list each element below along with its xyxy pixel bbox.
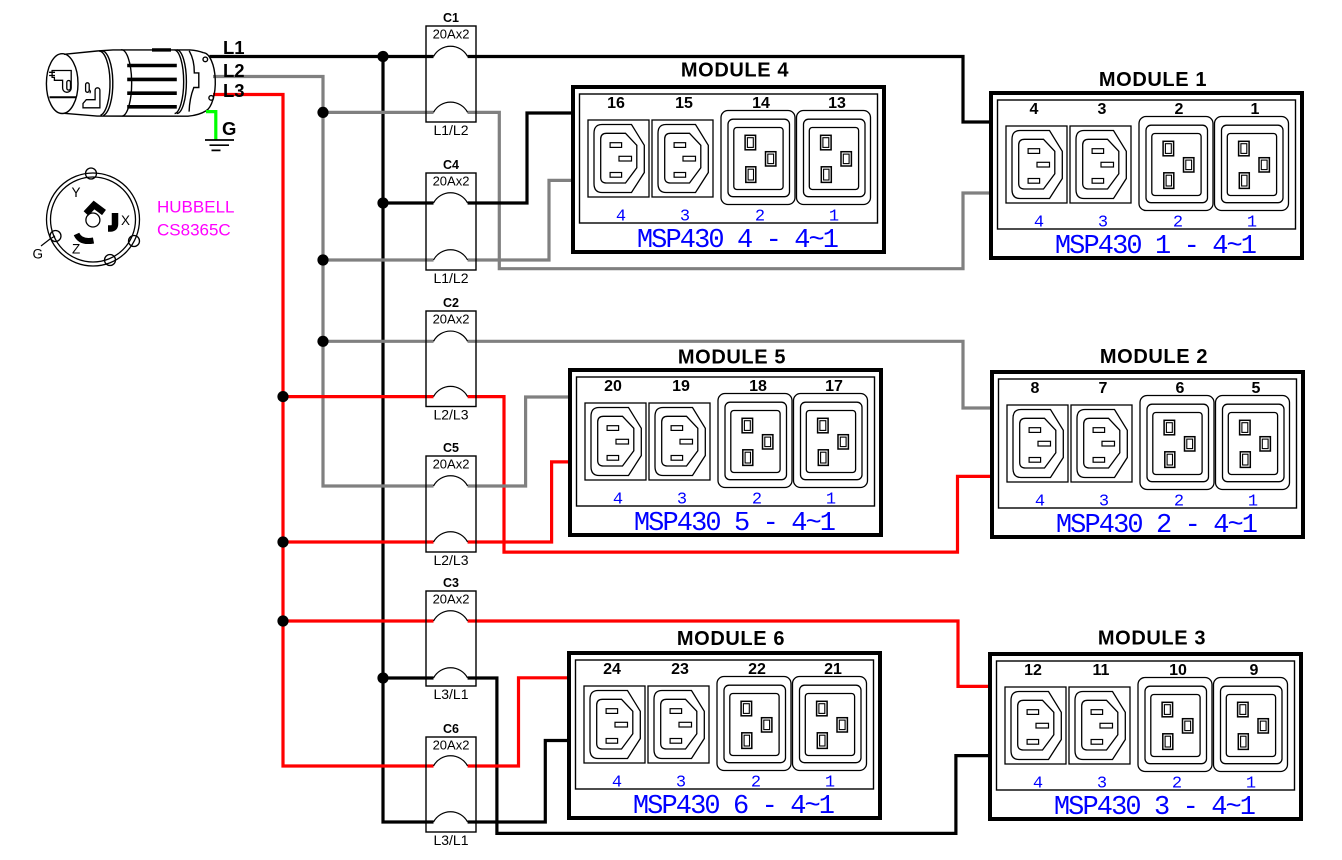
outlet 9 (NEMA 5-20R) <box>1214 678 1288 772</box>
svg-text:1: 1 <box>1247 213 1257 232</box>
svg-text:L2/L3: L2/L3 <box>433 552 468 568</box>
circuit breaker C6 (L3/L1, 20Ax2) <box>426 722 476 848</box>
module 1 port numbers and MSP430 label <box>1034 213 1257 262</box>
svg-text:2: 2 <box>1175 101 1184 118</box>
svg-text:C3: C3 <box>443 576 459 590</box>
wire feed L1 bus to C3 bottom <box>383 676 434 679</box>
plug face blade slots <box>49 71 100 108</box>
module 4 outlet bank <box>573 60 884 253</box>
svg-text:MSP430 6 - 4~1: MSP430 6 - 4~1 <box>633 792 834 822</box>
svg-text:20Ax2: 20Ax2 <box>433 174 470 189</box>
outlet 6 (NEMA 5-20R) <box>1140 396 1214 490</box>
wire L1 phase from plug to breaker C1 (black) <box>210 55 434 58</box>
svg-text:1: 1 <box>825 773 835 792</box>
svg-text:L3: L3 <box>223 80 245 101</box>
ground symbol <box>205 140 234 150</box>
svg-text:MODULE 6: MODULE 6 <box>677 628 785 650</box>
outlet 7 (IEC C13) <box>1071 405 1132 482</box>
svg-text:C1: C1 <box>443 11 459 25</box>
pin blade Z <box>77 234 94 241</box>
svg-text:Y: Y <box>72 185 81 200</box>
wire C4 bottom output to Module 4 lower (gray) <box>468 180 571 260</box>
wire C1 top output to Module 1 upper (black) <box>468 57 989 123</box>
svg-text:1: 1 <box>1248 492 1258 511</box>
svg-text:4: 4 <box>1035 492 1045 511</box>
outlet 17 (NEMA 5-20R) <box>794 394 868 488</box>
outlet 11 (IEC C13) <box>1069 687 1130 764</box>
svg-text:MODULE 3: MODULE 3 <box>1098 628 1206 650</box>
wire feed L3 bus to C3 top <box>283 619 434 622</box>
outlet 22 (NEMA 5-20R) <box>717 677 791 771</box>
svg-text:10: 10 <box>1169 662 1187 679</box>
svg-text:3: 3 <box>1098 213 1108 232</box>
wire C5 bottom output to Module 5 lower (red) <box>468 462 568 542</box>
svg-text:23: 23 <box>671 661 689 678</box>
outlet 19 (IEC C13) <box>649 403 710 480</box>
wire feed L3 bus to C5 bottom <box>283 540 434 543</box>
outlet 24 (IEC C13) <box>584 686 645 763</box>
svg-text:MSP430 1 - 4~1: MSP430 1 - 4~1 <box>1055 232 1256 262</box>
svg-text:2: 2 <box>1174 492 1184 511</box>
svg-text:2: 2 <box>751 773 761 792</box>
svg-text:20Ax2: 20Ax2 <box>433 592 470 607</box>
svg-text:12: 12 <box>1024 662 1042 679</box>
junction L1/C1 <box>377 51 388 62</box>
pin blade X <box>108 213 115 229</box>
svg-text:16: 16 <box>607 95 625 112</box>
outlet 13 (NEMA 5-20R) <box>797 111 871 205</box>
svg-text:2: 2 <box>1173 213 1183 232</box>
outlet 16 (IEC C13) <box>588 120 649 197</box>
module 5 outlet bank <box>570 347 881 536</box>
svg-text:20Ax2: 20Ax2 <box>433 27 470 42</box>
G leader line <box>41 236 55 246</box>
circuit breaker C2 (L2/L3, 20Ax2) <box>426 296 476 423</box>
outlet 1 (NEMA 5-20R) <box>1215 117 1289 211</box>
svg-text:1: 1 <box>829 207 839 226</box>
svg-text:MSP430 5 - 4~1: MSP430 5 - 4~1 <box>634 509 835 539</box>
outlet 3 (IEC C13) <box>1070 126 1131 203</box>
wire feed L2 bus to C2 top <box>323 340 434 343</box>
outlet 8 (IEC C13) <box>1007 405 1068 482</box>
junction L2/C4 <box>317 254 328 265</box>
svg-text:L2/L3: L2/L3 <box>433 407 468 423</box>
module 5 port numbers and MSP430 label <box>613 490 836 539</box>
module 1 outlet bank <box>991 69 1302 258</box>
wire C6 top output to Module 6 upper (red) <box>468 678 567 766</box>
svg-text:CS8365C: CS8365C <box>157 221 231 240</box>
svg-text:L2: L2 <box>223 60 245 81</box>
svg-text:9: 9 <box>1250 662 1259 679</box>
svg-text:1: 1 <box>826 490 836 509</box>
svg-text:20Ax2: 20Ax2 <box>433 457 470 472</box>
svg-text:MODULE 2: MODULE 2 <box>1100 346 1208 368</box>
svg-text:MODULE 1: MODULE 1 <box>1099 69 1207 91</box>
outlet 10 (NEMA 5-20R) <box>1138 678 1212 772</box>
svg-text:20: 20 <box>604 378 622 395</box>
svg-text:MODULE 5: MODULE 5 <box>678 347 786 369</box>
svg-text:17: 17 <box>825 378 843 395</box>
outlet 5 (NEMA 5-20R) <box>1216 396 1290 490</box>
module 3 port numbers and MSP430 label <box>1033 774 1256 823</box>
circuit breaker C4 (L1/L2, 20Ax2) <box>426 158 476 286</box>
wire feed L1 bus to C4 top <box>383 201 434 204</box>
outlet 14 (NEMA 5-20R) <box>721 111 795 205</box>
junction L3/C5 <box>277 536 288 547</box>
outlet 21 (NEMA 5-20R) <box>793 677 867 771</box>
junction L1/C3 <box>377 672 388 683</box>
svg-text:13: 13 <box>828 95 846 112</box>
wire C6 bottom output to Module 6 lower (black) <box>468 741 567 823</box>
wire C2 top output to Module 2 upper (gray) <box>468 341 990 408</box>
pin blade Y <box>86 205 104 214</box>
svg-text:C2: C2 <box>443 296 459 310</box>
outlet 4 (IEC C13) <box>1006 126 1067 203</box>
svg-text:3: 3 <box>677 490 687 509</box>
svg-text:2: 2 <box>1172 774 1182 793</box>
svg-text:2: 2 <box>752 490 762 509</box>
svg-text:1: 1 <box>1251 101 1260 118</box>
outlet 20 (IEC C13) <box>585 403 646 480</box>
svg-text:L1: L1 <box>223 37 245 58</box>
svg-text:4: 4 <box>616 207 626 226</box>
svg-text:Z: Z <box>72 241 80 256</box>
wire feed L2 bus to C4 bottom <box>323 258 434 261</box>
module 2 port numbers and MSP430 label <box>1035 492 1258 541</box>
svg-text:MSP430 2 - 4~1: MSP430 2 - 4~1 <box>1056 511 1257 541</box>
junction L3/C2 <box>277 391 288 402</box>
wire C5 top output to Module 5 upper (gray) <box>468 397 568 486</box>
wire C2 bottom output to Module 2 lower (red) <box>468 397 990 552</box>
circuit breaker C3 (L3/L1, 20Ax2) <box>426 576 476 702</box>
svg-text:3: 3 <box>1097 774 1107 793</box>
svg-text:7: 7 <box>1099 380 1108 397</box>
wire C4 top output to Module 4 upper (black) <box>468 113 571 203</box>
svg-text:4: 4 <box>1030 101 1039 118</box>
svg-text:C4: C4 <box>443 158 459 172</box>
svg-text:3: 3 <box>1098 101 1107 118</box>
junction L3/C3 <box>277 615 288 626</box>
svg-text:C6: C6 <box>443 722 459 736</box>
junction L2/C2 <box>317 336 328 347</box>
svg-text:L3/L1: L3/L1 <box>433 832 468 848</box>
svg-text:5: 5 <box>1252 380 1261 397</box>
junction L1/C4 <box>377 197 388 208</box>
svg-text:3: 3 <box>1099 492 1109 511</box>
svg-text:G: G <box>33 247 44 262</box>
wire L1 black bus down left side to C6 <box>383 57 434 823</box>
svg-text:20Ax2: 20Ax2 <box>433 312 470 327</box>
wire L2 phase from plug, gray bus down to C5 <box>213 77 434 487</box>
wire feed L3 bus to C2 bottom <box>283 395 434 398</box>
svg-text:11: 11 <box>1093 662 1110 679</box>
svg-text:4: 4 <box>1034 213 1044 232</box>
svg-text:G: G <box>222 118 236 139</box>
svg-text:20Ax2: 20Ax2 <box>433 738 470 753</box>
junction L2/C1 <box>317 107 328 118</box>
svg-text:3: 3 <box>676 773 686 792</box>
outlet 15 (IEC C13) <box>652 120 713 197</box>
circuit breaker C5 (L2/L3, 20Ax2) <box>426 441 476 568</box>
module 3 outlet bank <box>990 628 1301 820</box>
module 6 outlet bank <box>569 628 880 818</box>
svg-text:MODULE 4: MODULE 4 <box>681 60 789 82</box>
plug top edge thick segment <box>152 48 171 51</box>
svg-text:4: 4 <box>1033 774 1043 793</box>
wire feed L2 bus to C1 bottom <box>323 111 434 114</box>
svg-text:6: 6 <box>1176 380 1185 397</box>
svg-text:24: 24 <box>603 661 621 678</box>
connector pin-face diagram <box>47 168 140 266</box>
svg-text:C5: C5 <box>443 441 459 455</box>
svg-text:2: 2 <box>755 207 765 226</box>
outlet 2 (NEMA 5-20R) <box>1139 117 1213 211</box>
module 4 port numbers and MSP430 label <box>616 207 839 256</box>
wire C1 bottom output to Module 1 lower (gray) <box>468 112 989 268</box>
wire L3 phase from plug, red bus down to C6 <box>213 95 434 767</box>
plug barrel ribs <box>127 66 177 107</box>
svg-text:4: 4 <box>613 490 623 509</box>
module 2 outlet bank <box>992 346 1303 537</box>
circuit breaker C1 (L1/L2, 20Ax2) <box>426 11 476 138</box>
svg-text:3: 3 <box>680 207 690 226</box>
wire C3 bottom output to Module 3 lower (black) <box>468 678 988 833</box>
svg-text:4: 4 <box>612 773 622 792</box>
svg-text:14: 14 <box>752 95 770 112</box>
outlet 23 (IEC C13) <box>648 686 709 763</box>
outlet 12 (IEC C13) <box>1005 687 1066 764</box>
svg-text:8: 8 <box>1031 380 1040 397</box>
svg-text:MSP430 4 - 4~1: MSP430 4 - 4~1 <box>637 226 838 256</box>
outlet 18 (NEMA 5-20R) <box>718 394 792 488</box>
svg-text:X: X <box>121 213 130 228</box>
svg-text:15: 15 <box>675 95 693 112</box>
svg-text:HUBBELL: HUBBELL <box>157 197 234 216</box>
svg-text:19: 19 <box>672 378 690 395</box>
svg-text:21: 21 <box>824 661 842 678</box>
svg-text:1: 1 <box>1246 774 1256 793</box>
wire C3 top output to Module 3 upper (red) <box>468 621 988 686</box>
svg-text:MSP430 3 - 4~1: MSP430 3 - 4~1 <box>1054 793 1255 823</box>
wire ground (green) <box>206 112 216 140</box>
svg-text:L3/L1: L3/L1 <box>433 686 468 702</box>
svg-text:L1/L2: L1/L2 <box>433 270 468 286</box>
svg-text:L1/L2: L1/L2 <box>433 122 468 138</box>
svg-text:22: 22 <box>748 661 766 678</box>
svg-text:18: 18 <box>749 378 767 395</box>
plug HUBBELL CS8365C (3D view) <box>46 50 215 116</box>
module 6 port numbers and MSP430 label <box>612 773 835 822</box>
